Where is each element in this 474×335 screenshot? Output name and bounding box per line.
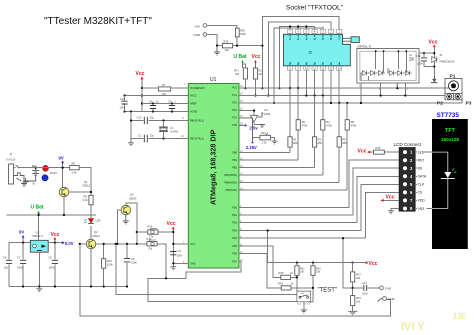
svg-text:DATA: DATA <box>418 175 427 179</box>
wire PD1 row <box>239 214 353 216</box>
wire ground bus <box>9 252 128 286</box>
svg-text:RS: RS <box>418 167 423 171</box>
svg-text:TL431: TL431 <box>262 112 271 116</box>
resistor R23 <box>351 287 362 311</box>
svg-text:680: 680 <box>342 141 347 145</box>
wire main battery rail <box>20 167 70 169</box>
svg-text:8 MHz: 8 MHz <box>171 130 179 134</box>
ground (battery minus) <box>16 178 27 187</box>
svg-text:C10: C10 <box>137 116 142 120</box>
svg-text:22p: 22p <box>150 134 155 138</box>
svg-text:U1: U1 <box>210 77 217 83</box>
ground (U1 GND) <box>170 262 176 270</box>
wire J2 loop nets <box>262 17 339 104</box>
svg-text:S1.4: S1.4 <box>305 303 310 305</box>
resistor R7 <box>142 83 188 96</box>
svg-text:100n: 100n <box>177 254 183 258</box>
wire PD4 row <box>239 238 366 288</box>
svg-text:PB7(XTAL2): PB7(XTAL2) <box>190 138 204 141</box>
resistor R17 <box>234 63 247 90</box>
svg-text:+5V: +5V <box>195 25 200 29</box>
svg-text:2.25V: 2.25V <box>246 145 257 150</box>
svg-text:DIP/DIL-8: DIP/DIL-8 <box>358 44 372 48</box>
svg-text:470k: 470k <box>302 124 308 128</box>
resistor R2 470k <box>296 120 308 130</box>
svg-text:R8: R8 <box>72 162 76 166</box>
resistor R13 <box>102 243 114 288</box>
wire Vcc protection column <box>419 47 434 79</box>
terminal GND (bottom) <box>378 297 396 302</box>
resistor R25 <box>279 271 299 279</box>
resistor R14 <box>147 237 167 278</box>
svg-text:470k: 470k <box>326 124 332 128</box>
svg-text:C2: C2 <box>138 134 142 138</box>
node Vcc (regulator out) <box>51 232 60 243</box>
svg-text:PB3(MOSI): PB3(MOSI) <box>224 174 237 177</box>
resistor R3 680 <box>313 137 323 147</box>
svg-text:C11: C11 <box>120 97 125 101</box>
svg-text:PC6(RESET): PC6(RESET) <box>190 87 205 90</box>
svg-text:PB5(SCK): PB5(SCK) <box>225 189 237 192</box>
J2 internal pin digits <box>288 36 341 65</box>
svg-text:C8: C8 <box>149 100 153 104</box>
svg-text:R9: R9 <box>84 195 88 199</box>
svg-text:PD3: PD3 <box>232 230 237 233</box>
capacitor C7b <box>17 243 26 287</box>
svg-text:Vcc: Vcc <box>167 221 176 227</box>
ground (crystal) <box>128 139 134 146</box>
terminal P1 <box>445 74 462 94</box>
wire probe net TP2 <box>239 95 447 97</box>
svg-text:J2: J2 <box>307 50 313 55</box>
wire PB rows staircase <box>239 152 347 190</box>
svg-text:PC0: PC0 <box>232 87 237 90</box>
svg-text:Q1: Q1 <box>84 180 88 184</box>
svg-text:C5: C5 <box>49 256 53 260</box>
op-amp U1 ATMega328 <box>188 77 239 268</box>
svg-text:R30: R30 <box>240 28 245 32</box>
svg-text:Vcc: Vcc <box>136 71 145 77</box>
capacitor C4 <box>3 243 12 287</box>
capacitor C2 22p <box>138 134 154 143</box>
node Vcc (protection) <box>429 40 438 48</box>
wire PD risers to LCD pins <box>349 160 399 238</box>
svg-text:10k: 10k <box>300 270 305 274</box>
U1 right pin labels <box>224 87 237 264</box>
svg-text:C9: C9 <box>168 100 172 104</box>
svg-text:160x128: 160x128 <box>441 137 459 142</box>
wire power latch loop <box>80 244 391 316</box>
svg-text:PD5: PD5 <box>232 245 237 248</box>
terminal F-IN <box>380 286 391 291</box>
svg-text:10µ: 10µ <box>4 266 9 270</box>
svg-text:10k: 10k <box>356 276 361 280</box>
resistor R4 470k <box>321 120 333 130</box>
ground (protection) <box>431 76 438 83</box>
svg-text:U Bat: U Bat <box>234 54 247 60</box>
node U Bat <box>31 205 44 214</box>
svg-text:100k: 100k <box>107 263 113 267</box>
pushbutton TEST <box>297 288 337 310</box>
wire left column to crystal rows <box>131 112 188 139</box>
op-amp U3 TL431 <box>239 108 271 127</box>
wire regulator input rail <box>9 242 30 244</box>
transistor Q2 <box>86 230 100 249</box>
svg-text:Q2: Q2 <box>94 230 98 234</box>
svg-text:Vcc: Vcc <box>51 232 60 238</box>
svg-text:R21: R21 <box>259 69 264 73</box>
svg-text:100n: 100n <box>362 292 368 296</box>
wire PD6 row to R24 <box>239 254 281 288</box>
node Vcc (TEST rail) <box>353 261 378 267</box>
node 2.5V <box>239 124 258 131</box>
svg-text:1µ: 1µ <box>156 100 159 104</box>
node Vcc (LED backlight) <box>358 149 371 155</box>
svg-text:TFT: TFT <box>445 128 456 134</box>
svg-text:PD7: PD7 <box>232 260 237 263</box>
svg-text:Vcc: Vcc <box>369 261 378 267</box>
resistor R22 <box>295 263 305 292</box>
node 9V <box>59 156 64 168</box>
resistor R16 backlight <box>370 146 399 154</box>
diodes D array <box>360 71 412 76</box>
resistor R21 <box>253 68 263 97</box>
wire diode box pins to probe nets <box>361 83 405 103</box>
svg-text:PC4: PC4 <box>232 117 237 120</box>
capacitor C14 <box>416 53 428 66</box>
svg-text:S9014: S9014 <box>93 234 101 238</box>
wire U Bat rail <box>7 197 97 243</box>
terminal P2 <box>437 93 454 106</box>
svg-text:ST7735: ST7735 <box>437 112 460 119</box>
svg-text:Vcc: Vcc <box>386 195 395 201</box>
svg-text:U 8-12V: U 8-12V <box>6 158 16 162</box>
svg-text:P3: P3 <box>466 101 472 107</box>
node 5.0V <box>60 241 74 246</box>
J2 top pin boxes <box>287 27 341 37</box>
node U Bat (divider) <box>234 54 247 68</box>
resistor R6 470k <box>345 120 357 130</box>
wire PD5 row to R25 <box>239 246 281 277</box>
svg-text:7550-3-3: 7550-3-3 <box>32 234 43 238</box>
node Vcc (pullup) <box>252 54 261 68</box>
ground (jack) <box>23 178 29 185</box>
svg-text:C3: C3 <box>178 249 182 253</box>
svg-text:C4: C4 <box>3 256 7 260</box>
svg-text:PB4(MISO): PB4(MISO) <box>224 181 237 184</box>
svg-text:100k: 100k <box>240 32 246 36</box>
svg-text:"TEST": "TEST" <box>318 288 338 294</box>
terminal red + <box>43 165 49 171</box>
svg-text:9V: 9V <box>19 230 24 235</box>
capacitor C5 <box>49 243 59 287</box>
capacitor C3 <box>170 249 183 258</box>
svg-text:100n: 100n <box>120 106 126 110</box>
svg-text:PB1: PB1 <box>232 159 237 162</box>
crystal F1 8MHz <box>159 121 179 139</box>
resistor R30 <box>235 25 246 45</box>
svg-text:GND: GND <box>190 262 196 265</box>
wire PD0 row <box>239 206 349 208</box>
U1 pin number labels <box>181 83 243 264</box>
wire Q2 connections <box>80 226 147 287</box>
svg-text:470k: 470k <box>351 124 357 128</box>
svg-text:C14: C14 <box>416 54 421 58</box>
junction dots probe nets <box>289 87 291 89</box>
svg-text:22p: 22p <box>150 116 155 120</box>
wire probe net TP3 <box>239 98 462 104</box>
wire PD3 row <box>239 231 361 263</box>
svg-text:F-IN: F-IN <box>385 287 391 291</box>
transistor Q1 <box>59 180 90 197</box>
wire AVCC row <box>125 95 189 97</box>
ground (VSS pin8) <box>388 209 399 214</box>
svg-text:U Bat: U Bat <box>31 205 44 211</box>
resistor R8 <box>70 162 80 175</box>
svg-text:PC5: PC5 <box>232 124 237 127</box>
wire Q3 collector/base <box>117 203 136 244</box>
capacitor C12 <box>353 281 380 296</box>
svg-text:C7: C7 <box>17 256 21 260</box>
J2 bottom pin boxes <box>287 64 341 74</box>
wire TEST top rail <box>268 262 353 264</box>
svg-text:U2: U2 <box>36 231 40 235</box>
svg-text:100n: 100n <box>49 266 55 270</box>
svg-text:R16: R16 <box>376 146 381 150</box>
svg-text:RST: RST <box>418 159 425 163</box>
node 2.25V <box>239 118 257 150</box>
wire Vcc column <box>141 88 143 112</box>
svg-text:PD4: PD4 <box>232 237 237 240</box>
wire diode box internal <box>361 51 406 80</box>
capacitor C6 <box>124 243 137 288</box>
svg-text:LED: LED <box>96 219 101 223</box>
svg-text:2.4k: 2.4k <box>72 171 78 175</box>
svg-text:ATMega8, 168,328 DIP: ATMega8, 168,328 DIP <box>209 129 218 205</box>
svg-text:GND: GND <box>194 33 202 37</box>
svg-text:100n: 100n <box>17 266 23 270</box>
wire PD7 row loop to switch <box>148 261 307 301</box>
svg-text:PMEG3015A: PMEG3015A <box>440 60 455 64</box>
svg-text:10k: 10k <box>235 72 240 76</box>
svg-text:Vcc: Vcc <box>252 54 261 60</box>
transistor Q3 <box>121 193 137 215</box>
U1 left pin labels <box>190 87 205 265</box>
wire J2 columns to resistors <box>290 88 347 137</box>
svg-text:R7: R7 <box>162 83 166 87</box>
svg-text:"TTester M328KIT+TFT": "TTester M328KIT+TFT" <box>44 16 152 27</box>
svg-text:2.5v: 2.5v <box>250 126 259 131</box>
ground (R28) <box>214 46 220 55</box>
battery Bat 9v <box>24 164 39 186</box>
terminal K1 <box>151 230 154 233</box>
resistor R9 <box>83 195 94 205</box>
J2 plug stub <box>343 37 360 43</box>
svg-text:20k: 20k <box>225 48 230 52</box>
wire R8 to R9 <box>63 168 91 196</box>
svg-text:S1.1: S1.1 <box>297 303 302 305</box>
ground (R23) <box>348 311 357 314</box>
svg-text:R12: R12 <box>261 131 266 135</box>
connector LCD Connect <box>394 142 422 211</box>
capacitor C9 <box>168 100 177 112</box>
svg-text:9V: 9V <box>59 156 64 161</box>
svg-text:S9014: S9014 <box>129 197 137 201</box>
terminal GND <box>194 33 218 46</box>
LED D1 <box>84 205 100 224</box>
svg-text:R15: R15 <box>148 225 153 229</box>
svg-text:CS: CS <box>418 191 423 195</box>
terminal blue - <box>42 175 48 181</box>
node 9V (regulator input) <box>19 230 25 243</box>
connector J1 power jack <box>6 152 24 184</box>
wire regulator output rail <box>48 242 60 244</box>
terminal +5V <box>195 24 238 29</box>
svg-text:27k: 27k <box>148 247 153 251</box>
svg-text:AGND: AGND <box>190 111 197 114</box>
ground (TEST) <box>301 310 307 313</box>
svg-text:PC1: PC1 <box>232 94 237 97</box>
svg-text:10k: 10k <box>316 270 321 274</box>
svg-text:Vcc: Vcc <box>429 40 438 46</box>
ground (bus) <box>36 287 42 292</box>
svg-text:CLK: CLK <box>418 183 425 187</box>
svg-text:PC2: PC2 <box>232 102 237 105</box>
svg-text:5.0V: 5.0V <box>65 241 74 246</box>
svg-text:PD0: PD0 <box>232 206 237 209</box>
svg-text:PD2: PD2 <box>232 222 237 225</box>
capacitor C8 <box>149 100 159 112</box>
svg-text:Socket "TFXTOOL": Socket "TFXTOOL" <box>286 5 344 12</box>
terminal K2 <box>151 242 154 245</box>
capacitor C10 22p <box>137 116 155 125</box>
connector J2 ZIF socket <box>283 34 350 66</box>
svg-text:GND: GND <box>388 297 396 301</box>
resistor R5 680 <box>337 137 347 147</box>
wire resistor bottoms staircase to PB rows <box>290 130 347 190</box>
svg-text:VCC: VCC <box>190 243 195 246</box>
svg-text:R25: R25 <box>279 271 284 275</box>
svg-text:VSS: VSS <box>418 207 426 211</box>
ground (Q3 emitter) <box>123 215 129 224</box>
svg-text:LCD Connect: LCD Connect <box>394 142 422 147</box>
svg-text:PD1: PD1 <box>232 214 237 217</box>
svg-text:DC9V: DC9V <box>50 171 57 175</box>
svg-text:R13: R13 <box>107 259 112 263</box>
display TFT ST7735 <box>432 112 468 249</box>
svg-text:10k: 10k <box>356 300 361 304</box>
svg-text:R28: R28 <box>224 40 229 44</box>
diode Z1 PMEG3015 <box>432 53 455 64</box>
wire J2 bottom pin drops <box>290 74 339 103</box>
svg-text:VDD: VDD <box>418 199 426 203</box>
resistor R24 <box>278 282 314 290</box>
wire AREF row <box>142 103 188 105</box>
svg-text:680: 680 <box>318 141 323 145</box>
resistor R1 680 <box>288 137 298 147</box>
terminal P3 <box>454 93 472 106</box>
svg-text:PB6(XTAL1): PB6(XTAL1) <box>190 120 204 123</box>
trimmer R12 <box>253 131 278 144</box>
node Vcc (VDD pin7) <box>380 195 399 202</box>
svg-text:2.2k: 2.2k <box>262 141 268 145</box>
resistor R15 <box>137 225 174 239</box>
wire LED VSS stubs to TFT <box>424 152 433 208</box>
resistor R27 <box>351 263 362 296</box>
svg-text:PC3: PC3 <box>232 109 237 112</box>
LCD pin pads and numbers <box>403 150 427 211</box>
regulator U2 7550 <box>30 231 48 253</box>
svg-text:S9012: S9012 <box>83 184 91 188</box>
capacitor C11 <box>120 96 128 112</box>
svg-text:PD6: PD6 <box>232 253 237 256</box>
svg-text:100n: 100n <box>131 261 137 265</box>
svg-text:PB0: PB0 <box>232 151 237 154</box>
svg-text:AVCC: AVCC <box>190 95 197 98</box>
diode array DIP/DIL-8 <box>357 44 419 83</box>
svg-text:680: 680 <box>293 141 298 145</box>
wire probe net TP1 <box>239 87 445 89</box>
svg-text:JJE: JJE <box>452 312 467 321</box>
wire VCC pin 7 <box>173 232 188 263</box>
svg-text:R14: R14 <box>147 237 152 241</box>
svg-text:AREF: AREF <box>190 103 197 106</box>
svg-text:R17: R17 <box>234 69 239 73</box>
wire PD2 row <box>239 222 357 224</box>
LED (backlight symbol in TFT) <box>432 152 456 208</box>
svg-text:100n: 100n <box>417 62 423 66</box>
node Vcc (analog) <box>136 71 145 88</box>
svg-text:Q3: Q3 <box>130 193 134 197</box>
resistor R28 <box>217 40 262 53</box>
svg-text:C12: C12 <box>362 281 367 285</box>
node Vcc (U1 supply) <box>167 221 176 232</box>
svg-text:IVI Y: IVI Y <box>401 321 425 333</box>
svg-text:P2: P2 <box>437 101 443 107</box>
svg-text:C6: C6 <box>131 257 135 261</box>
svg-text:R24: R24 <box>278 282 283 286</box>
wire AGND row <box>125 111 189 113</box>
resistor R26 <box>308 263 321 302</box>
svg-text:Vcc: Vcc <box>358 149 367 155</box>
svg-text:3.3k: 3.3k <box>83 198 89 202</box>
wire Q2 link loop <box>116 244 297 295</box>
svg-text:PB2: PB2 <box>232 166 237 169</box>
